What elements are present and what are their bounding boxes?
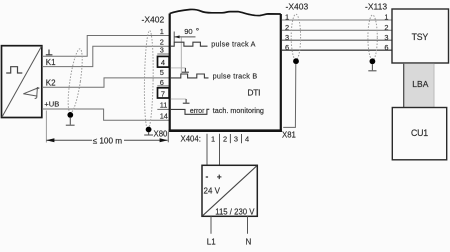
X402 terminal numbers [160,27,168,121]
pulse track A waveform [171,42,208,46]
track B ground symbol [182,68,189,72]
svg-text:4: 4 [161,58,165,67]
svg-text:-X402: -X402 [142,15,165,25]
svg-text:2: 2 [223,135,227,144]
90° dimension extension (track A rising edge) [173,32,175,43]
svg-text:-: - [206,171,209,181]
svg-text:2: 2 [285,23,289,32]
svg-text:CU1: CU1 [411,128,428,138]
X403 terminal numbers [285,13,289,53]
svg-text:DTI: DTI [247,88,260,98]
svg-text:pulse track A: pulse track A [211,40,255,49]
sensor (pulse encoder) box [2,46,42,118]
90° dimension line with arrow [174,36,195,38]
encoder angle symbol [23,87,39,99]
dimension line <=100m [46,139,167,141]
terminal 3 stub [157,53,169,55]
svg-text:error: error [190,108,205,115]
svg-text:+UB: +UB [44,100,59,109]
svg-text:6: 6 [384,43,388,52]
svg-text:115 / 230 V: 115 / 230 V [215,207,255,216]
encoder diagonal [2,46,42,117]
DTI wavy top edge [170,9,281,15]
svg-text:5: 5 [160,68,164,77]
cable length dimension extension lines [45,111,47,143]
encoder pulse symbol [6,67,22,73]
terminal 6 stub [157,85,169,87]
svg-text:-X113: -X113 [365,2,387,12]
svg-text:TSY: TSY [412,32,429,42]
wire DTI to TSY row 2 [282,29,392,31]
wire N [247,216,249,234]
X404 separators [229,134,231,143]
CU1 box [392,108,446,160]
svg-text:3: 3 [285,33,289,42]
svg-text:1: 1 [211,135,215,144]
wire DTI to TSY row 3 [282,39,392,41]
cable shield ellipse at -X113 [368,15,377,60]
shield wire down to X81 [283,64,296,128]
wire DTI to TSY row 6 [282,49,392,51]
ground at shield dot [66,118,75,125]
svg-text:3: 3 [234,135,238,144]
svg-text:1: 1 [160,27,164,36]
cable shield ellipse (encoder cable) [65,48,85,113]
svg-text:6: 6 [285,43,289,52]
wire K2 to X402:5 [42,78,170,87]
shield dot at X113 [370,58,376,64]
shield junction dot at +UB [67,112,73,118]
svg-text:-X403: -X403 [286,2,309,12]
power supply box [202,165,257,216]
pulse track B waveform [171,74,209,78]
boxed terminal 4 [158,56,170,67]
terminal 11 stub [157,108,169,110]
svg-text:7: 7 [161,89,165,98]
svg-text:≤ 100 m: ≤ 100 m [93,136,123,145]
svg-text:1: 1 [285,13,289,22]
boxed terminal 7 [158,88,170,98]
svg-text:4: 4 [245,135,249,144]
svg-text:K2: K2 [46,78,56,87]
svg-text:X80: X80 [154,129,169,138]
svg-text:3: 3 [384,33,388,42]
svg-text:24 V: 24 V [204,187,221,196]
svg-text:pulse track B: pulse track B [213,71,258,80]
label <= 100 m [92,135,124,145]
wire +UB to X402:14 [42,109,170,120]
svg-text:X81: X81 [282,130,296,139]
svg-text:+: + [217,171,222,181]
wire K1 to X402:2 [42,46,170,66]
error ground symbol [183,99,190,103]
TSY box [392,9,449,63]
svg-text:90: 90 [184,27,192,36]
wire DTI to TSY row 1 [282,19,392,21]
X113 terminal numbers [384,13,388,53]
svg-text:X404:: X404: [181,135,201,144]
svg-text:K1: K1 [46,58,56,67]
cable shield ellipse at -X403 [291,14,300,60]
wire L1 [210,216,212,234]
svg-text:1: 1 [384,13,388,22]
wire X404:1 to power supply [206,134,208,166]
wire X404:2 to power supply [219,134,221,166]
wire shield stub to X402:1 [42,36,170,57]
svg-text:3: 3 [160,46,164,55]
svg-text:N: N [246,237,252,246]
90° dimension extension to track B [180,37,182,73]
svg-text:LBA: LBA [412,79,428,89]
shield dot at X403 [293,58,299,64]
svg-text:°: ° [196,26,199,36]
X404 terminal numbers [211,135,249,144]
shield dot X80 [146,127,152,133]
svg-text:11: 11 [160,101,168,110]
svg-text:L1: L1 [207,237,216,246]
internal stub to error ground [171,98,186,100]
internal stub to track B ground [171,67,186,69]
cable shield ellipse at -X402 [144,31,154,130]
ground symbol (earth tab at encoder output) [46,50,53,55]
error waveform [171,109,210,114]
ground at X113 dot [368,64,376,71]
ground at X80 [144,132,153,135]
svg-text:tach. monitoring: tach. monitoring [213,106,264,115]
svg-text:2: 2 [384,23,388,32]
svg-text:14: 14 [160,112,168,121]
power supply diagonal [203,166,257,216]
DTI box edges [169,14,171,132]
LBA module [404,64,435,107]
